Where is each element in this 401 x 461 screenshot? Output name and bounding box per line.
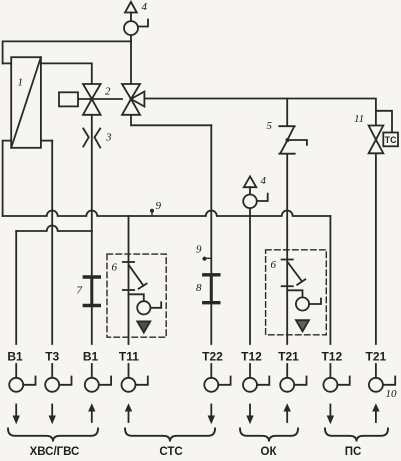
brace group XBC/GBC: [8, 429, 98, 442]
wire top-left stub into heat exchanger: [3, 62, 12, 64]
thermostat TC box: [383, 133, 398, 147]
wire manifold 2 with hop: [16, 226, 92, 232]
three-way valve body: [122, 84, 144, 115]
connection circle T12 right: [323, 364, 349, 392]
control unit 1 link to sensor: [129, 294, 144, 301]
actuator box of valve 2: [59, 92, 78, 106]
flow arrow T11 up: [125, 403, 132, 422]
wire valve 11 down to T21: [375, 153, 377, 344]
wire T3 column: [51, 141, 53, 344]
wire B1 left column: [15, 231, 17, 344]
wire valve 11 sensor link: [376, 111, 392, 133]
svg-text:8: 8: [196, 282, 202, 294]
connection circle T11: [122, 364, 148, 392]
connection circle T12: [243, 364, 269, 392]
safety valve 4 on T12: triangle: [244, 176, 256, 187]
wire HX left return to manifold 1: [3, 141, 12, 216]
valve 5 pivot dot: [286, 138, 290, 142]
flow arrow T21 right up: [372, 403, 379, 422]
connection circle T22: [204, 364, 230, 392]
svg-text:TC: TC: [385, 135, 397, 145]
control unit 2 sensor circle: [296, 297, 309, 310]
wire top header from HX circuit to safety valve column: [3, 41, 131, 63]
control unit 2 link to sensor: [287, 290, 302, 297]
flow arrow T3 down: [49, 405, 56, 425]
svg-text:B1: B1: [7, 350, 23, 364]
control unit 2 diagonal tick: [297, 279, 305, 284]
control unit 1 diagonal tick: [139, 284, 147, 289]
dashed control unit box 1: [107, 254, 166, 337]
elevator 7: [84, 277, 99, 306]
svg-text:6: 6: [271, 259, 277, 271]
connection circle T21: [280, 364, 306, 392]
wire T22 column: [210, 125, 212, 344]
control unit 1 sensor circle: [137, 301, 150, 314]
brace group CTC: [125, 429, 215, 442]
flow arrow T12 right down: [327, 405, 334, 425]
wire three-way valve bottom to T22 column: [131, 115, 211, 126]
svg-text:T22: T22: [202, 350, 223, 364]
connection circle T21 right node 10: [369, 364, 395, 392]
wire HX outlet to valve 2 column: [41, 63, 92, 84]
svg-text:T12: T12: [321, 350, 342, 364]
flow arrow T22 down: [208, 405, 215, 425]
svg-text:9: 9: [156, 200, 162, 212]
wire T12 column with safety valve 4: [249, 208, 251, 344]
sensor 9 on T22 column: [202, 257, 211, 261]
connection circle B1 mid: [85, 364, 111, 392]
svg-text:T21: T21: [366, 350, 387, 364]
svg-text:5: 5: [267, 120, 273, 132]
safety valve 4 on T12: lever: [257, 194, 268, 201]
flow arrow B1 mid up: [88, 403, 95, 422]
wire three-way valve to main supply: [78, 98, 122, 100]
svg-text:T21: T21: [278, 350, 299, 364]
svg-text:ОК: ОК: [261, 446, 278, 458]
wire T21 column below valve 5: [286, 154, 288, 344]
control unit 1 upper flange: [123, 261, 134, 263]
control unit 2 upper flange: [282, 259, 293, 261]
flow arrow T21 up: [284, 403, 291, 422]
valve 3 chevrons: [83, 129, 100, 148]
wire HX right return to T3 column: [41, 140, 52, 142]
wire T21 branch through valve 5: [286, 99, 288, 127]
svg-text:9: 9: [196, 244, 202, 256]
safety valve 4 top: stem: [130, 13, 132, 22]
connection circle B1 left: [9, 364, 35, 392]
connection circle T3: [45, 364, 71, 392]
wire T11 column: [128, 216, 130, 344]
safety valve 4 top: circle: [124, 21, 138, 35]
elevator 8: [204, 275, 219, 303]
svg-text:11: 11: [354, 113, 364, 125]
svg-text:ХВС/ГВС: ХВС/ГВС: [30, 446, 80, 458]
control unit 2 lower flange: [282, 285, 293, 287]
wire manifold 1 with hops: [3, 211, 331, 217]
svg-text:1: 1: [18, 77, 24, 89]
svg-text:3: 3: [105, 132, 112, 144]
control unit 1 arrow triangle: [137, 321, 150, 332]
dashed control unit box 2: [266, 250, 327, 335]
valve 2 two-way body: [83, 84, 101, 115]
control unit 2 stem diagonal: [287, 262, 302, 282]
flow arrow B1 left down: [13, 405, 20, 425]
svg-text:B1: B1: [83, 350, 99, 364]
svg-text:4: 4: [142, 1, 148, 13]
brace group OK: [240, 429, 298, 442]
control unit 1 sensor lever: [150, 302, 161, 308]
svg-text:ПС: ПС: [345, 446, 362, 458]
control unit 2 arrow triangle: [296, 320, 309, 331]
safety valve 4 on T12: circle: [243, 195, 257, 209]
control unit 1 lower flange: [123, 289, 134, 291]
heat exchanger U1 body: [11, 57, 41, 148]
safety valve 4 on T12: stem: [249, 187, 251, 194]
safety valve 4 top: triangle: [125, 2, 137, 13]
valve 5 pressure regulator: [279, 126, 307, 154]
control unit 2 sensor lever: [309, 299, 321, 305]
flow arrow T12 down: [246, 405, 253, 425]
svg-text:T12: T12: [241, 350, 262, 364]
wire main supply line to valve 11: [144, 99, 376, 126]
svg-text:7: 7: [77, 285, 83, 297]
wire T12 right column: [329, 216, 331, 344]
wire safety valve 4 column to three-way valve: [130, 35, 132, 84]
wire valve column down through valve 3 to manifold and B1: [91, 84, 93, 344]
svg-text:10: 10: [386, 388, 398, 400]
control unit 1 stem diagonal: [129, 265, 144, 286]
svg-text:2: 2: [105, 86, 111, 98]
brace group PC: [325, 429, 388, 442]
valve 11 body: [369, 126, 384, 154]
safety valve 4 top: lever: [138, 20, 148, 27]
svg-text:T3: T3: [45, 350, 59, 364]
svg-text:T11: T11: [119, 350, 139, 364]
svg-text:6: 6: [112, 262, 118, 274]
sensor 9 on manifold: [150, 209, 154, 216]
svg-text:4: 4: [261, 175, 267, 187]
svg-text:СТС: СТС: [159, 446, 182, 458]
